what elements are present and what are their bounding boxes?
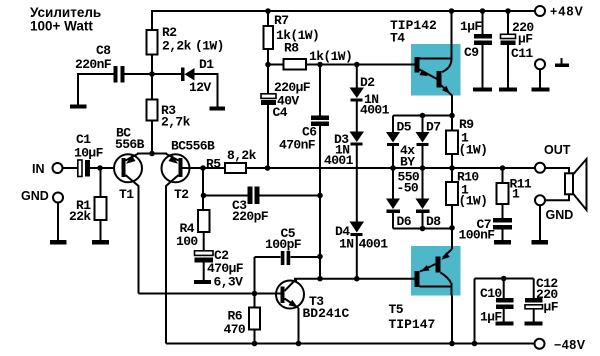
- capacitor C8: [114, 66, 118, 83]
- bottom rail -48V: [166, 343, 535, 345]
- resistor R9: [446, 131, 458, 155]
- svg-text:TIP147: TIP147: [389, 317, 436, 332]
- svg-text:BC556B: BC556B: [171, 139, 215, 154]
- wire T3 collector up: [295, 279, 297, 281]
- diode D2 1N4001: [356, 65, 358, 89]
- wire C5 down to base wire: [254, 257, 256, 294]
- svg-text:1: 1: [512, 187, 520, 202]
- wire OUT to speaker: [545, 168, 569, 200]
- svg-text:12V: 12V: [189, 80, 211, 95]
- svg-text:100pF: 100pF: [265, 237, 302, 252]
- input terminal IN: [53, 163, 63, 173]
- svg-text:T5: T5: [389, 302, 404, 317]
- capacitor C12: [533, 279, 535, 299]
- speaker: [565, 173, 573, 194]
- svg-text:D5: D5: [397, 120, 412, 135]
- capacitor C2: [195, 251, 214, 256]
- svg-text:2,7k: 2,7k: [161, 115, 191, 130]
- svg-text:BY: BY: [400, 155, 415, 170]
- capacitor C1: [78, 160, 82, 177]
- svg-text:(1W): (1W): [459, 143, 488, 158]
- svg-text:µF: µF: [544, 300, 559, 315]
- svg-text:T2: T2: [174, 187, 189, 202]
- resistor R3: [147, 100, 158, 121]
- wire rail corner down to R2: [151, 10, 153, 30]
- terminal GND out: [535, 195, 545, 205]
- svg-text:6,3V: 6,3V: [214, 275, 244, 290]
- transistor T3 BD241C: [276, 281, 304, 309]
- svg-text:+48V: +48V: [550, 5, 584, 19]
- wire C8 left to ground: [78, 74, 114, 105]
- diode D7: [422, 116, 424, 133]
- transistor T1 BC556B: [114, 154, 142, 182]
- ground D1: [210, 107, 226, 111]
- wire T2 base to R5: [183, 167, 226, 169]
- wire R2 to junction to R3: [151, 55, 153, 100]
- resistor R4: [198, 210, 210, 232]
- svg-text:220nF: 220nF: [75, 57, 112, 72]
- svg-text:1N 4001: 1N 4001: [339, 237, 388, 252]
- capacitor C9: [482, 11, 484, 34]
- svg-text:D8: D8: [426, 214, 441, 229]
- diode D1 zener 12V: [181, 68, 185, 82]
- transistor T5 TIP147 internals: [451, 228, 453, 249]
- diode D8: [422, 168, 424, 199]
- capacitor C6: [319, 65, 321, 116]
- svg-text:100: 100: [176, 234, 198, 249]
- wire top rail +48V: [152, 10, 535, 12]
- svg-text:C4: C4: [273, 105, 288, 120]
- svg-text:R7: R7: [274, 13, 288, 28]
- resistor R2: [147, 30, 158, 55]
- svg-text:22k: 22k: [69, 209, 91, 224]
- svg-text:4001: 4001: [360, 103, 390, 118]
- svg-text:1µF: 1µF: [480, 310, 502, 325]
- terminal gnd mid: [535, 59, 545, 69]
- svg-text:T1: T1: [119, 187, 134, 202]
- svg-text:-50: -50: [397, 181, 419, 196]
- svg-text:556B: 556B: [115, 137, 145, 152]
- resistor R10: [451, 168, 453, 182]
- wire T1 T2 emitter rail: [137, 153, 167, 155]
- svg-text:R8: R8: [284, 41, 299, 56]
- svg-text:T4: T4: [390, 31, 405, 46]
- capacitor C10 C12 bracket: [474, 279, 476, 344]
- diode D3 1N4001: [350, 132, 365, 143]
- svg-text:GND: GND: [546, 208, 574, 222]
- svg-text:D1: D1: [199, 57, 214, 72]
- svg-text:470nF: 470nF: [279, 138, 316, 153]
- svg-text:1µF: 1µF: [460, 19, 482, 34]
- svg-text:100nF: 100nF: [459, 228, 496, 243]
- wire D5 D7 top bracket: [393, 115, 452, 117]
- svg-text:470: 470: [224, 322, 246, 337]
- wire R3 to emitter rail: [151, 121, 153, 154]
- svg-text:C10: C10: [480, 286, 502, 301]
- svg-text:2,2k (1W): 2,2k (1W): [162, 39, 224, 54]
- wire junction to D1: [153, 73, 181, 75]
- diode D4 1N4001: [350, 222, 365, 233]
- resistor R8: [268, 64, 284, 66]
- wire D6 D8 bottom bracket: [393, 228, 452, 230]
- svg-text:D7: D7: [426, 120, 440, 135]
- capacitor C10: [503, 279, 505, 299]
- svg-text:100+ Watt: 100+ Watt: [30, 19, 93, 34]
- svg-text:4001: 4001: [324, 153, 354, 168]
- wire C8 right to junction: [125, 73, 152, 75]
- terminal GND input: [53, 193, 63, 203]
- svg-text:GND: GND: [21, 189, 49, 203]
- wire output rail: [246, 167, 535, 169]
- resistor R5: [225, 163, 246, 173]
- svg-text:−48V: −48V: [554, 338, 586, 352]
- terminal OUT: [535, 163, 545, 173]
- transistor T2 BC556B: [162, 154, 190, 182]
- svg-text:8,2k: 8,2k: [227, 148, 257, 163]
- chassis ground symbol: [561, 58, 563, 64]
- terminal +48V: [535, 6, 545, 16]
- capacitor C11: [507, 11, 509, 34]
- svg-text:(1W): (1W): [459, 194, 488, 209]
- wire R8 to T4 base: [306, 64, 415, 66]
- svg-text:BD241C: BD241C: [303, 306, 350, 321]
- wire T5 base from T3: [294, 278, 415, 280]
- ground C8: [70, 105, 87, 109]
- terminal -48V: [535, 339, 545, 349]
- svg-text:R5: R5: [206, 157, 221, 172]
- resistor R11: [502, 168, 504, 183]
- resistor R1: [100, 168, 102, 197]
- svg-text:220pF: 220pF: [232, 209, 269, 224]
- wire D1 to ground: [194, 74, 218, 107]
- svg-text:µF: µF: [518, 32, 533, 47]
- svg-text:C11: C11: [511, 46, 533, 61]
- resistor R6: [254, 294, 256, 308]
- wire C1 to T1 base: [90, 167, 122, 169]
- wire IN to C1: [63, 167, 78, 169]
- svg-text:IN: IN: [32, 162, 45, 176]
- svg-text:D2: D2: [360, 75, 375, 90]
- T4 highlight box: [411, 44, 461, 96]
- resistor R7: [267, 11, 269, 26]
- wire feedback to T3 base: [139, 293, 281, 295]
- svg-text:C9: C9: [464, 45, 479, 60]
- svg-text:1k(1W): 1k(1W): [309, 49, 352, 64]
- capacitor C7: [493, 218, 512, 223]
- T5 highlight box: [411, 246, 461, 296]
- diode D6: [392, 168, 394, 199]
- capacitor C4: [267, 65, 269, 94]
- svg-text:D6: D6: [397, 214, 412, 229]
- transistor T4 TIP142 internals: [451, 11, 453, 59]
- svg-text:OUT: OUT: [544, 143, 571, 157]
- svg-text:10µF: 10µF: [74, 146, 104, 161]
- capacitor C3: [202, 168, 204, 210]
- svg-text:C8: C8: [96, 43, 111, 58]
- diode D5: [392, 116, 394, 133]
- capacitor C5: [255, 256, 281, 258]
